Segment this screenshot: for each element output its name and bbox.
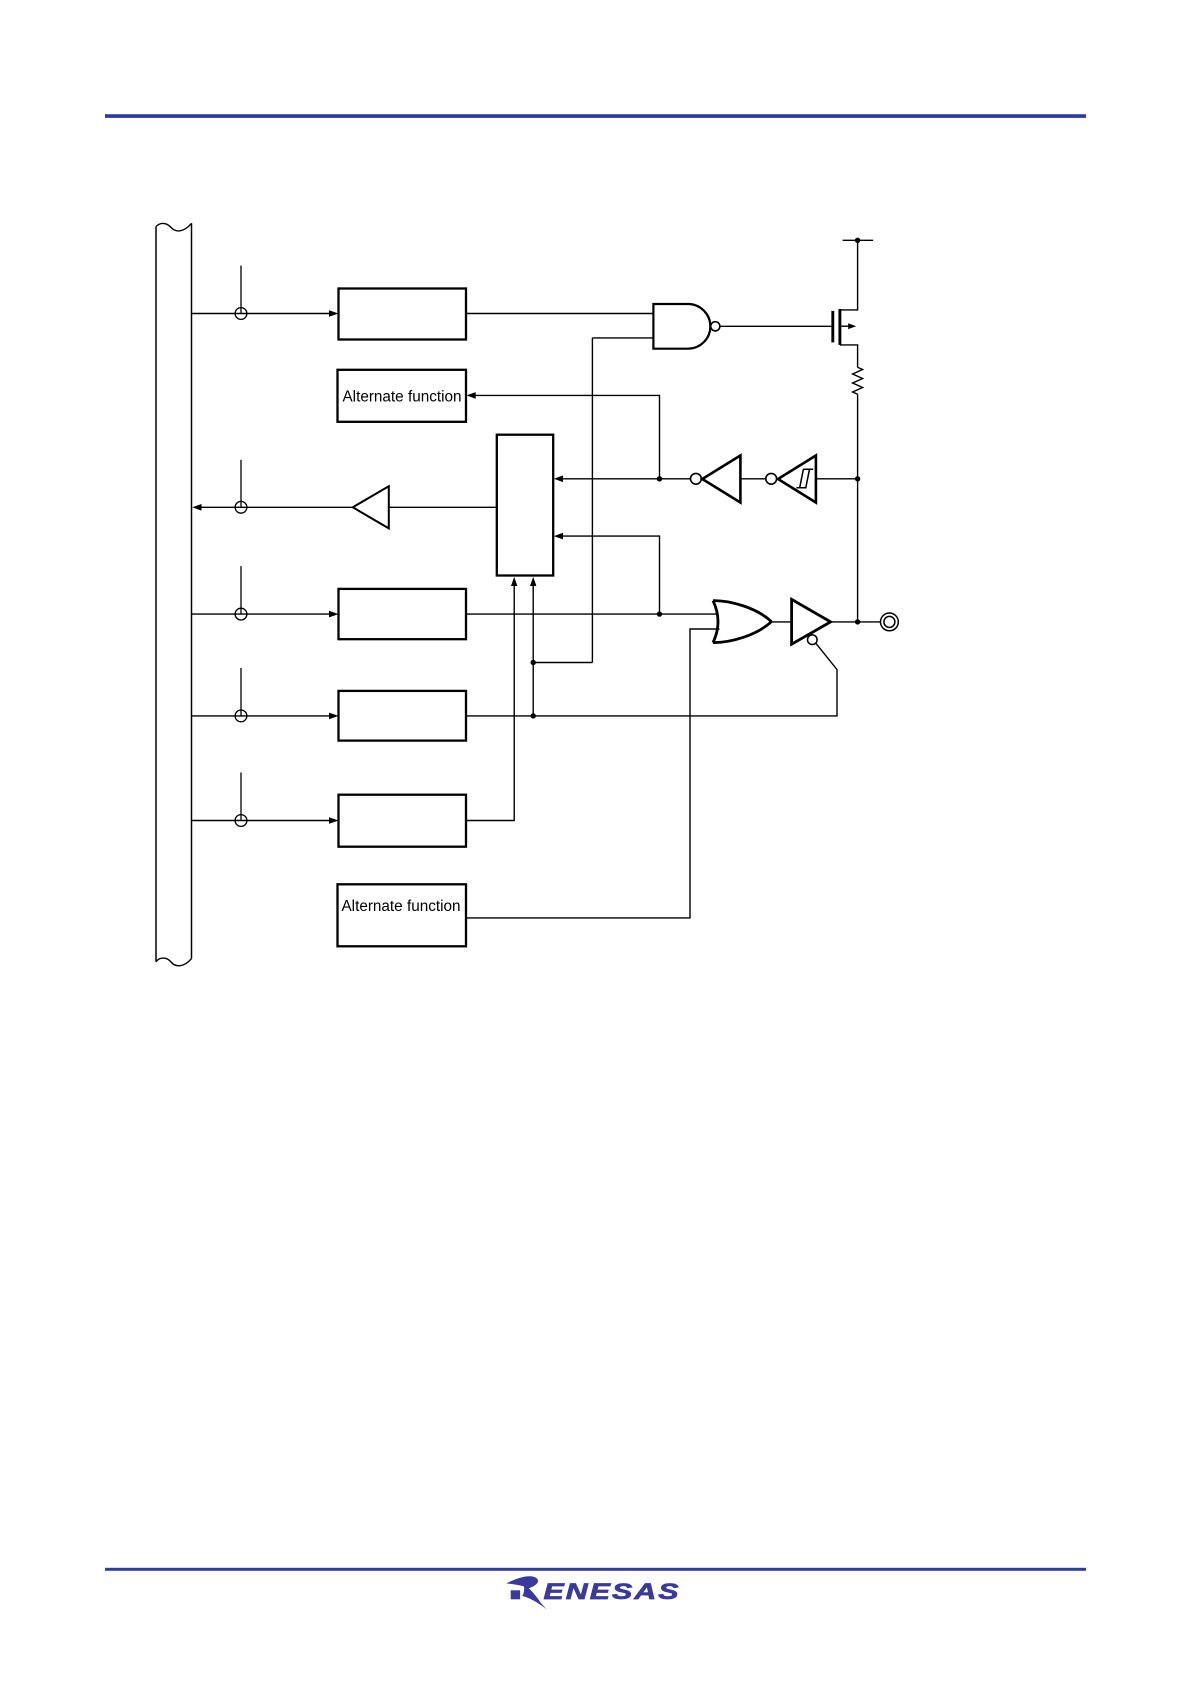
svg-text:Alternate function: Alternate function (341, 898, 460, 915)
arrowhead into port control right top (554, 476, 563, 483)
node row1 tap stub (240, 266, 242, 314)
wire power to transistor drain (840, 240, 858, 310)
wire transistor source down (840, 345, 858, 367)
junction power rail (855, 238, 860, 243)
wire pin to schmitt (816, 478, 858, 480)
arrowhead into port control bottom x533 (530, 577, 536, 586)
power rail (843, 239, 873, 241)
register block row4 (339, 691, 467, 741)
pin pad inner circle (884, 616, 895, 627)
wire port control to read buffer (390, 506, 497, 508)
svg-text:ENESAS: ENESAS (544, 1579, 681, 1604)
Renesas logo R swoosh (507, 1576, 547, 1609)
junction pin node (855, 619, 860, 624)
register block row1 (339, 289, 467, 340)
arrowhead into register row3 (329, 611, 339, 618)
arrowhead into register row4 (329, 713, 339, 720)
svg-text:Alternate function: Alternate function (342, 388, 461, 405)
port control block (497, 435, 553, 576)
node row2 tap circle (235, 501, 247, 513)
output buffer U5 (792, 599, 831, 644)
NAND gate U1 body (653, 304, 710, 349)
internal bus (left vertical) (155, 227, 157, 962)
node row3 tap stub (240, 566, 242, 614)
internal bus top wavy end (156, 223, 192, 231)
alternate function box 2 (338, 884, 467, 946)
node row4 tap stub (240, 668, 242, 716)
resistor pull-up (853, 367, 863, 394)
wire schmitt to inverter (740, 478, 765, 480)
junction row3 (657, 611, 662, 616)
arrowhead into port control bottom x514 (511, 577, 517, 586)
transistor Q1 gate bar (831, 311, 834, 343)
arrowhead into bus row2 (192, 504, 201, 511)
wire register row5 up into port control (466, 584, 514, 821)
OR gate U4 (713, 601, 771, 643)
wire row3 feedback into port control (562, 536, 660, 614)
Renesas logo square (511, 1590, 520, 1599)
internal bus bottom wavy end (156, 958, 192, 966)
wire read buffer to bus (200, 506, 353, 508)
wire NAND output to transistor gate (720, 325, 832, 327)
node row5 tap circle (235, 815, 247, 827)
wire NAND second input vertical (592, 338, 653, 663)
junction row2 (657, 476, 662, 481)
wire inverter to port control (561, 478, 691, 480)
wire alternate function 2 to OR gate (466, 629, 720, 918)
pin pad outer circle (881, 613, 899, 631)
wire row3 bus to register (192, 613, 330, 615)
transistor Q1 body arrow (841, 325, 849, 327)
wire alternate function 1 input (475, 395, 660, 478)
wire buffer output to pin (831, 621, 881, 623)
arrowhead into port control right bottom (554, 533, 563, 540)
junction schmitt tap (855, 476, 860, 481)
node row4 tap circle (235, 710, 247, 722)
header rule (105, 114, 1086, 118)
alternate function box 1 (338, 370, 467, 422)
wire row5 bus to register (192, 820, 330, 822)
wire resistor to pin node (857, 394, 859, 622)
inverter output bubble (691, 473, 702, 484)
arrowhead into register row5 (329, 817, 339, 824)
wire register row4 to enable (466, 643, 837, 716)
arrowhead into alternate function 1 (467, 392, 476, 399)
wire OR output to buffer (771, 621, 791, 623)
schmitt trigger U2 (778, 456, 816, 503)
register block row3 (339, 589, 467, 639)
wire row4 up into port control (532, 584, 534, 716)
schmitt hysteresis glyph (796, 469, 813, 488)
internal bus (right vertical) (191, 223, 193, 958)
junction row4 nand branch (531, 660, 536, 665)
schmitt output bubble (766, 473, 777, 484)
node row1 tap circle (235, 308, 247, 320)
wire register row3 to OR gate (466, 613, 719, 615)
NAND gate output bubble (711, 322, 720, 331)
transistor Q1 channel bar (838, 309, 841, 345)
footer rule (105, 1568, 1086, 1571)
inverter U3 (702, 456, 740, 503)
register block row5 (339, 795, 467, 847)
node row5 tap stub (240, 773, 242, 821)
node row2 tap stub (240, 460, 242, 508)
read buffer triangle (353, 486, 389, 528)
wire row4 bus to register (192, 715, 330, 717)
output buffer enable bubble (808, 635, 818, 645)
wire register row1 to NAND (466, 313, 653, 315)
wire row1 bus to register (192, 313, 330, 315)
junction row4 (531, 713, 536, 718)
node row3 tap circle (235, 608, 247, 620)
arrowhead into register R1 (329, 310, 339, 317)
wire row4 to NAND input (533, 662, 592, 664)
